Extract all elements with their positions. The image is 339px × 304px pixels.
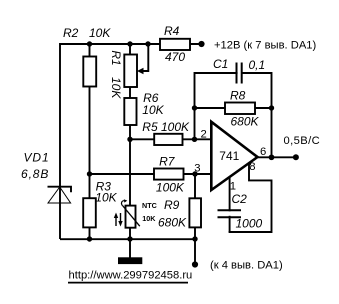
junction node bottom R9: [192, 236, 197, 241]
svg-text:1000: 1000: [236, 217, 263, 231]
svg-text:10K: 10K: [109, 77, 123, 99]
ground: [118, 257, 142, 264]
junction node output: [269, 154, 275, 160]
svg-text:10K: 10K: [95, 191, 117, 205]
svg-text:470: 470: [165, 50, 185, 64]
resistor R6: [124, 91, 164, 125]
svg-text:R8: R8: [230, 89, 246, 103]
svg-text:680K: 680K: [158, 216, 187, 230]
resistor R8: [225, 89, 260, 129]
svg-text:C2: C2: [232, 192, 248, 206]
resistor R3: [83, 180, 117, 228]
junction node pin2: [192, 137, 197, 142]
wire ground stub: [129, 239, 131, 258]
wire left rail: [59, 43, 61, 239]
junction node bottom NTC: [127, 236, 132, 241]
svg-text:C1: C1: [213, 57, 228, 71]
zener diode VD1: [21, 151, 71, 204]
svg-text:R5 100K: R5 100K: [142, 120, 190, 134]
wire R2/R3 column: [89, 44, 91, 239]
svg-text:R1: R1: [109, 50, 123, 65]
wire bottom rail: [60, 238, 195, 240]
junction node R8 right: [269, 105, 274, 110]
junction node top wiper: [145, 41, 150, 46]
capacitor C2: [218, 192, 263, 231]
terminal +12V: [198, 41, 204, 47]
resistor R2: [63, 26, 111, 87]
svg-text:680K: 680K: [231, 115, 260, 129]
svg-text:10K: 10K: [89, 26, 111, 40]
wire output: [255, 156, 296, 158]
thermistor temperature arrows: [115, 217, 117, 226]
wire R7 branch: [90, 173, 212, 175]
wire R1/R6/NTC column: [129, 44, 131, 239]
resistor R5: [142, 120, 190, 145]
svg-text:NTC: NTC: [142, 201, 157, 210]
capacitor C1: [213, 57, 265, 84]
op-amp U1 741: [194, 122, 266, 193]
svg-text:R4: R4: [164, 24, 180, 38]
junction node top R1: [127, 41, 132, 46]
thermistor RK (NTC): [114, 199, 157, 227]
svg-text:R7: R7: [159, 155, 176, 169]
svg-text:6: 6: [260, 146, 266, 158]
wire url underline: [68, 282, 188, 284]
svg-text:1: 1: [230, 180, 236, 192]
resistor R7: [154, 155, 185, 195]
wire feedback loop: [195, 73, 272, 157]
svg-text:R2: R2: [63, 26, 79, 40]
wire R5 branch: [130, 138, 211, 140]
resistor R1 (trimmer): [109, 50, 143, 99]
wire R9 column: [194, 174, 196, 265]
junction node pin3: [192, 171, 197, 176]
resistor R9: [158, 198, 201, 230]
wire R1 wiper: [142, 44, 149, 71]
wire pin8 to C2 bottom: [229, 163, 272, 232]
wire R8 branch: [195, 107, 272, 109]
svg-text:10K: 10K: [142, 103, 164, 117]
svg-text:2: 2: [201, 128, 207, 140]
svg-text:R9: R9: [164, 198, 180, 212]
svg-text:10K: 10K: [142, 214, 156, 223]
svg-text:+12В (к 7 выв. DA1): +12В (к 7 выв. DA1): [214, 40, 317, 52]
junction node R3/R7: [87, 171, 92, 176]
svg-text:0,5В/С: 0,5В/С: [284, 135, 321, 147]
wire pin1 to C2: [229, 177, 231, 232]
svg-text:741: 741: [219, 149, 239, 163]
svg-text:8: 8: [249, 161, 255, 173]
junction node R5/R6: [127, 137, 132, 142]
terminal output: [293, 154, 299, 160]
junction node bottom R3: [87, 236, 92, 241]
svg-text:(к 4 выв. DA1): (к 4 выв. DA1): [210, 260, 283, 272]
svg-text:0,1: 0,1: [249, 58, 266, 72]
wire top rail: [60, 43, 202, 45]
junction node R8 left: [192, 105, 197, 110]
svg-text:6,8В: 6,8В: [21, 167, 49, 181]
svg-text:100K: 100K: [156, 181, 185, 195]
resistor R4: [160, 24, 190, 64]
junction node top R2: [87, 41, 92, 46]
svg-text:http://www.299792458.ru: http://www.299792458.ru: [69, 269, 193, 281]
terminal pin4: [192, 261, 198, 267]
svg-text:VD1: VD1: [24, 151, 50, 165]
